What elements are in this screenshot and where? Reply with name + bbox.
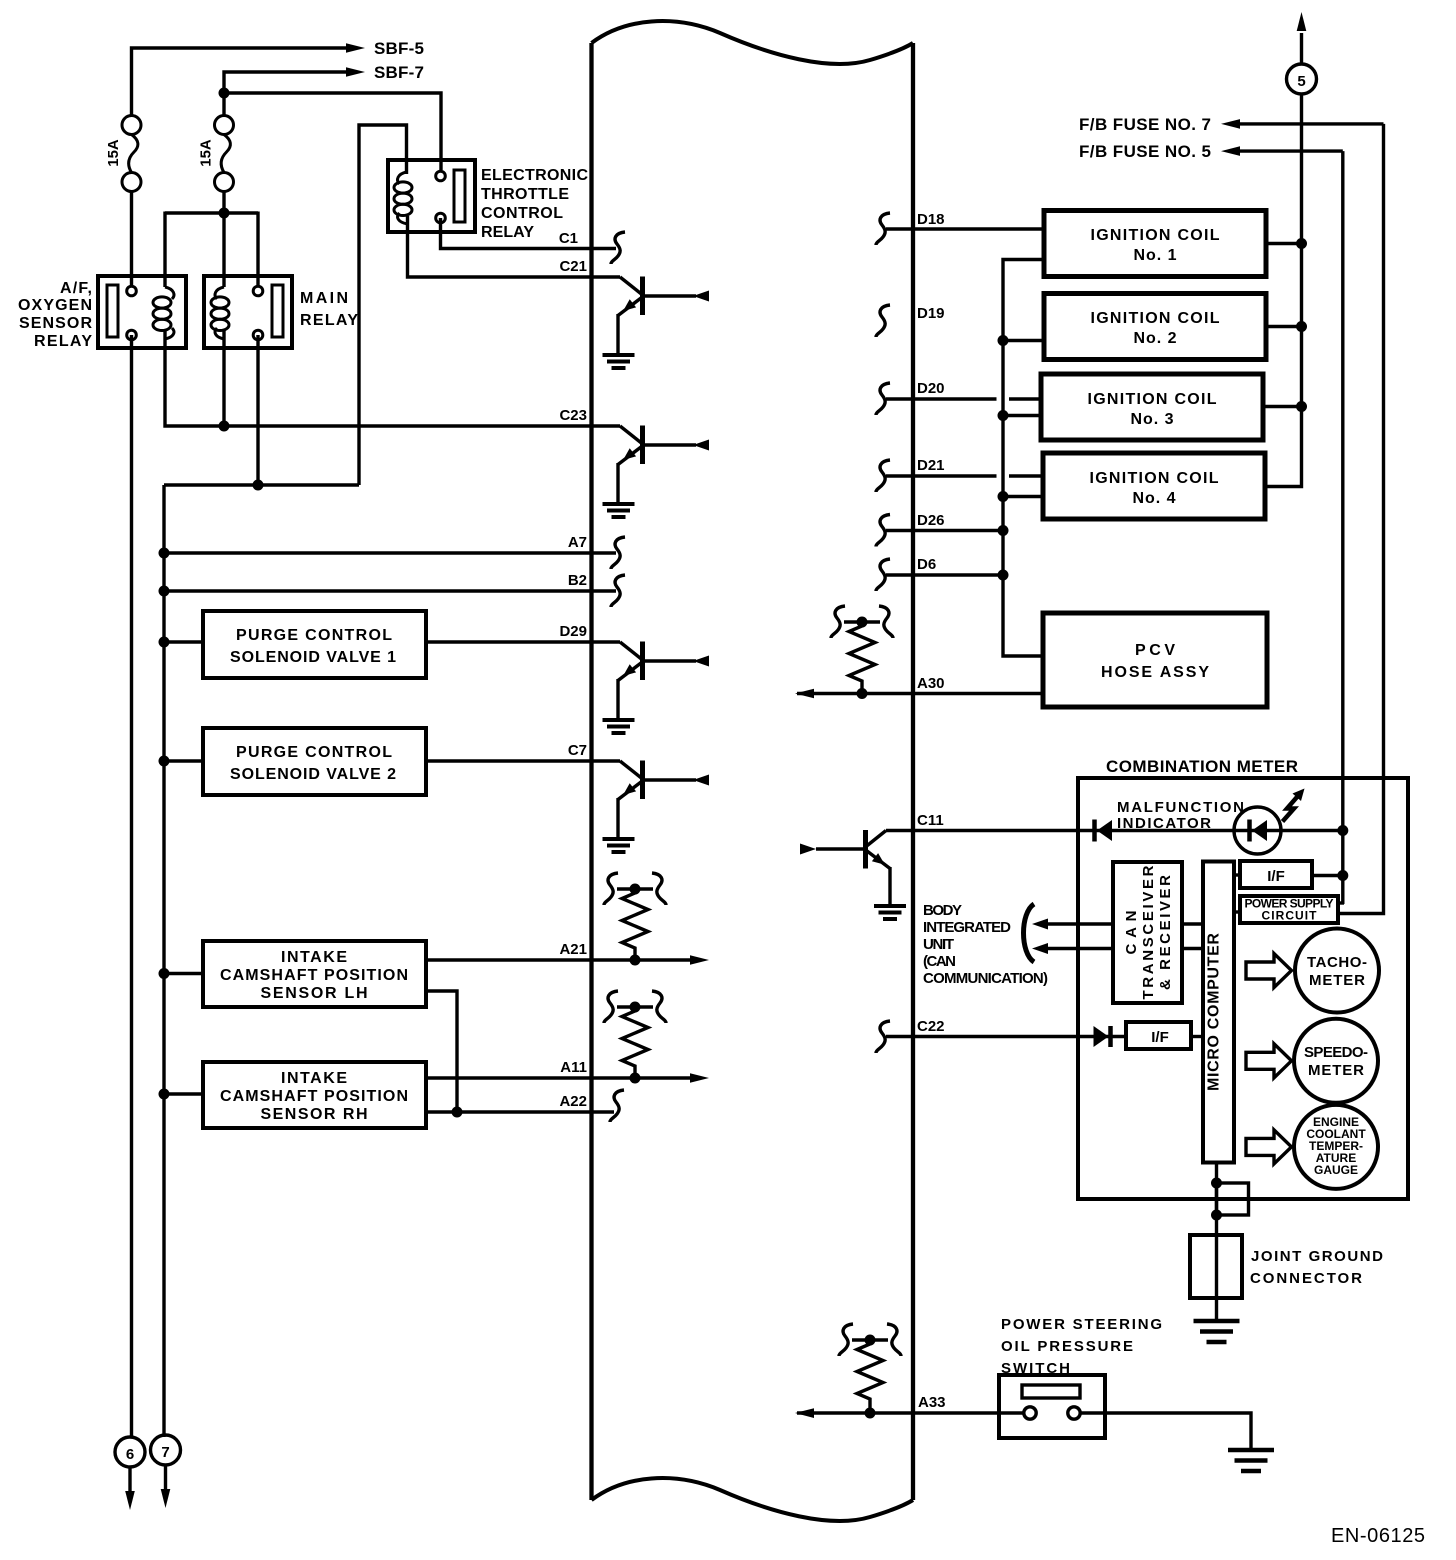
LED flash arrow <box>1283 789 1305 822</box>
svg-text:MALFUNCTION: MALFUNCTION <box>1117 799 1244 816</box>
node junction bus/coil3 <box>998 410 1009 421</box>
arrow CAN low <box>1032 943 1048 954</box>
node R3 bottom on A30 <box>857 688 868 699</box>
ground power steering switch <box>1228 1450 1274 1471</box>
wire SBF-7 horizontal <box>224 72 347 125</box>
gauge tachometer <box>1295 929 1379 1013</box>
svg-text:OIL PRESSURE: OIL PRESSURE <box>1001 1338 1133 1355</box>
node junction bus/coil2 <box>998 335 1009 346</box>
wire C1 stub inside ECM <box>592 247 617 250</box>
wire bus to cam sensor RH <box>164 1092 203 1095</box>
node junction bus/A7 <box>159 548 170 559</box>
node R4 top <box>865 1335 876 1346</box>
svg-text:JOINT GROUND: JOINT GROUND <box>1251 1248 1383 1265</box>
arrow circle 7 down <box>161 1489 171 1508</box>
svg-text:SENSOR: SENSOR <box>19 315 92 332</box>
wire cam LH second pin to A22 <box>426 991 457 1112</box>
svg-text:RELAY: RELAY <box>34 333 92 350</box>
resistor R1 pull-up A21 <box>617 889 653 960</box>
switch contact plate <box>1022 1385 1080 1398</box>
svg-text:No. 3: No. 3 <box>1131 411 1174 428</box>
node junction bus/B2 <box>159 586 170 597</box>
wire A30 <box>797 692 1043 695</box>
node junction supply/coil3 <box>1296 401 1307 412</box>
break B2 <box>611 575 625 607</box>
node junction I/F/F-B5 <box>1337 870 1348 881</box>
svg-text:BODY: BODY <box>923 902 962 919</box>
svg-text:CIRCUIT: CIRCUIT <box>1262 909 1318 923</box>
svg-text:SENSOR LH: SENSOR LH <box>261 985 368 1002</box>
wire coil1 pin2 to bus <box>1003 260 1044 657</box>
switch contact right <box>1068 1407 1080 1419</box>
node meter ground upper <box>1211 1178 1222 1189</box>
svg-text:C7: C7 <box>568 742 587 759</box>
wire below circle 7 <box>164 1465 167 1490</box>
break D6 <box>876 559 890 591</box>
node junction C11/F-B5 <box>1337 825 1348 836</box>
box micro computer <box>1203 862 1234 1163</box>
arrow CAN high <box>1032 919 1048 930</box>
ground Q2 <box>603 504 635 517</box>
node R2 bottom on A11 <box>630 1073 641 1084</box>
resistor R4 (A33) <box>852 1340 888 1413</box>
svg-text:SENSOR RH: SENSOR RH <box>261 1106 368 1123</box>
svg-text:I/F: I/F <box>1151 1029 1169 1046</box>
svg-text:GAUGE: GAUGE <box>1314 1163 1358 1177</box>
svg-text:B2: B2 <box>568 572 587 589</box>
box ignition coil No.2 <box>1044 294 1266 360</box>
break D21 <box>876 460 890 492</box>
wire main relay output pin down <box>256 335 259 485</box>
box intake camshaft position sensor RH <box>203 1062 426 1128</box>
node meter ground lower <box>1211 1210 1222 1221</box>
break A7 <box>611 537 625 569</box>
wire micro to I/F <box>1234 873 1240 876</box>
svg-text:MICRO COMPUTER: MICRO COMPUTER <box>1206 933 1223 1091</box>
svg-text:INTAKE: INTAKE <box>281 1070 347 1087</box>
wire bus to cam sensor LH <box>164 972 203 975</box>
wire coil3 pin2 to bus <box>1003 414 1041 417</box>
wire micro to power supply circuit <box>1234 910 1240 913</box>
connector circle 5 <box>1287 64 1317 94</box>
svg-text:UNIT: UNIT <box>923 936 954 953</box>
break D20 <box>876 383 890 415</box>
break R4 rail left <box>839 1324 853 1356</box>
ECM torn top edge <box>592 21 914 64</box>
box intake camshaft position sensor LH <box>203 941 426 1007</box>
wire C7 <box>426 759 592 762</box>
svg-text:INTEGRATED: INTEGRATED <box>923 919 1011 936</box>
box combination meter <box>1078 778 1408 1199</box>
svg-text:15A: 15A <box>198 139 215 167</box>
svg-text:No. 2: No. 2 <box>1134 330 1177 347</box>
wire bus to purge valve 1 <box>164 640 203 643</box>
wire fuse to main relay coil <box>222 192 225 288</box>
wire C11 <box>886 829 1343 832</box>
wire B2 <box>164 589 616 592</box>
node junction bus/cam LH <box>159 968 170 979</box>
svg-text:(CAN: (CAN <box>923 953 956 970</box>
svg-text:A33: A33 <box>918 1394 946 1411</box>
node junction bus/D6 <box>998 570 1009 581</box>
svg-text:SOLENOID VALVE 1: SOLENOID VALVE 1 <box>230 649 396 666</box>
ground Q5 <box>874 906 906 919</box>
svg-text:No. 4: No. 4 <box>1133 490 1176 507</box>
node junction bus/purge1 <box>159 637 170 648</box>
node junction bus/purge2 <box>159 756 170 767</box>
gauge speedometer <box>1294 1019 1378 1103</box>
wire D29 <box>426 640 592 643</box>
svg-text:METER: METER <box>1309 972 1365 989</box>
svg-text:F/B FUSE NO. 5: F/B FUSE NO. 5 <box>1079 142 1211 161</box>
diode D1 (MIL line) <box>1095 820 1113 842</box>
break R4 rail right <box>887 1324 901 1356</box>
transistor Q3 (D29 driver) <box>592 642 710 719</box>
wire ETC bottom pin to C1 <box>441 218 592 249</box>
svg-text:RELAY: RELAY <box>300 312 358 329</box>
svg-text:PURGE CONTROL: PURGE CONTROL <box>236 744 392 761</box>
svg-text:C1: C1 <box>559 230 578 247</box>
node junction A22/cam LH <box>452 1107 463 1118</box>
svg-text:HOSE ASSY: HOSE ASSY <box>1101 664 1209 681</box>
wire C21 into ECM <box>592 275 621 278</box>
node junction bus/cam RH <box>159 1089 170 1100</box>
wire supply vertical to coil4 <box>1265 33 1302 487</box>
ECM band left edge <box>589 43 593 1500</box>
resistor R2 pull-up A11 <box>617 1007 653 1078</box>
ground Q4 <box>603 839 635 852</box>
svg-text:SBF-7: SBF-7 <box>374 63 424 82</box>
body integrated unit parenthesis <box>1024 904 1035 962</box>
connector circle 7 <box>151 1435 181 1465</box>
ECM band right edge <box>911 43 915 1500</box>
node junction supply/coil2 <box>1296 321 1307 332</box>
svg-text:COMMUNICATION): COMMUNICATION) <box>923 970 1048 987</box>
svg-text:PCV: PCV <box>1135 642 1175 659</box>
wire A33 <box>797 1411 1024 1414</box>
box I/F lower <box>1126 1022 1191 1049</box>
node R4 bottom on A33 <box>865 1408 876 1419</box>
LED MIL lamp <box>1234 807 1281 854</box>
arrow F/B fuse no.5 <box>1221 146 1240 156</box>
node junction main coil / C23 <box>219 421 230 432</box>
svg-text:MAIN: MAIN <box>300 290 348 307</box>
wire main coil bottom to C23 line <box>222 329 225 426</box>
transistor Q1 (C21 driver) <box>618 277 709 354</box>
arrow F/B fuse no.7 <box>1221 119 1240 129</box>
svg-text:IGNITION COIL: IGNITION COIL <box>1091 310 1220 327</box>
wire D26 <box>886 529 1003 532</box>
wire junction to ETC relay top pin <box>224 93 441 170</box>
node junction rail/fuse <box>219 208 230 219</box>
svg-text:A11: A11 <box>560 1059 587 1076</box>
ground Q1 <box>603 355 635 368</box>
relay K3 electronic throttle control relay <box>388 160 475 232</box>
block arrow tachometer <box>1246 954 1292 988</box>
svg-text:D6: D6 <box>917 556 936 573</box>
connector box at meter bottom <box>1217 1183 1249 1215</box>
wire A/F coil top feed <box>163 212 166 288</box>
arrow circle 6 down <box>125 1491 135 1510</box>
break R3 rail right <box>879 606 893 638</box>
ground Q3 <box>603 720 635 733</box>
svg-text:CAMSHAFT POSITION: CAMSHAFT POSITION <box>220 1088 408 1105</box>
break R3 rail left <box>831 606 845 638</box>
svg-text:IGNITION COIL: IGNITION COIL <box>1091 227 1220 244</box>
wire C22 <box>886 1035 1126 1038</box>
wire coil4 pin2 to bus <box>1003 495 1043 498</box>
wire A21 <box>426 958 691 961</box>
wire F/B5 vertical <box>1341 151 1344 904</box>
break R2 rail left <box>604 991 618 1023</box>
svg-text:SBF-5: SBF-5 <box>374 39 424 58</box>
node R1 top <box>630 884 641 895</box>
wire main relay top pin feed <box>256 212 259 292</box>
gauge engine coolant temperature <box>1294 1105 1378 1189</box>
arrow A33 left <box>795 1408 814 1418</box>
wire CAN high to BIU <box>1048 922 1113 925</box>
svg-text:TACHO-: TACHO- <box>1307 954 1367 971</box>
node junction bus/D26 <box>998 525 1009 536</box>
node R2 top <box>630 1002 641 1013</box>
wire ETC coil bottom to C21 <box>408 216 592 277</box>
break C22 <box>876 1021 890 1053</box>
wire coil2 right to supply <box>1266 325 1302 328</box>
wire bus to purge valve 2 <box>164 759 203 762</box>
svg-text:F/B FUSE NO. 7: F/B FUSE NO. 7 <box>1079 115 1211 134</box>
node junction main pin / rail <box>253 480 264 491</box>
box ignition coil No.4 <box>1043 453 1265 519</box>
wire switch to ground <box>1079 1413 1251 1448</box>
svg-text:IGNITION COIL: IGNITION COIL <box>1090 470 1219 487</box>
svg-text:TRANSCEIVER: TRANSCEIVER <box>1140 865 1157 999</box>
svg-text:D26: D26 <box>917 512 945 529</box>
svg-text:6: 6 <box>126 1446 134 1463</box>
wire D20 (hops bus) <box>886 397 997 400</box>
svg-text:CONNECTOR: CONNECTOR <box>1250 1270 1362 1287</box>
resistor R3 (A30) <box>844 622 880 694</box>
svg-text:A30: A30 <box>917 675 945 692</box>
node R1 bottom on A21 <box>630 955 641 966</box>
wire below circle 6 <box>128 1467 131 1492</box>
wire SBF-5 horizontal <box>132 48 348 125</box>
svg-text:THROTTLE: THROTTLE <box>481 186 569 203</box>
fuse 15A right (main relay) <box>215 116 234 192</box>
wire A7 <box>164 551 616 554</box>
relay K2 main relay <box>204 276 292 348</box>
svg-text:RELAY: RELAY <box>481 224 534 241</box>
svg-text:EN-06125: EN-06125 <box>1331 1525 1425 1547</box>
wire coil rail y213 <box>165 211 258 214</box>
box PCV hose assy <box>1043 613 1267 707</box>
break R2 rail right <box>652 991 666 1023</box>
svg-text:A22: A22 <box>559 1093 587 1110</box>
svg-text:A21: A21 <box>559 941 587 958</box>
wire D18 <box>886 227 1044 230</box>
break C1 <box>611 232 625 264</box>
arrow A11 <box>690 1073 709 1083</box>
wire A/F coil bottom to C23 <box>165 329 592 426</box>
wire F/B fuse no.7 <box>1240 122 1384 125</box>
wire bus to coil2 <box>1003 339 1044 342</box>
block arrow speedometer <box>1246 1044 1292 1078</box>
wire coil3 right to supply <box>1263 405 1302 408</box>
arrow A30 left <box>795 689 814 699</box>
node junction supply/coil1 <box>1296 238 1307 249</box>
transistor Q2 (C23 driver) <box>592 426 710 503</box>
svg-text:C21: C21 <box>559 258 587 275</box>
arrow SBF-7 <box>346 67 365 77</box>
wire fuse to A/F relay pin <box>130 192 133 292</box>
box purge control solenoid valve 1 <box>203 611 426 678</box>
wire CAN box to micro (low) <box>1182 947 1203 950</box>
box CAN transceiver and receiver <box>1113 862 1182 1003</box>
svg-text:D20: D20 <box>917 380 945 397</box>
arrow SBF-5 <box>346 43 365 53</box>
svg-text:ELECTRONIC: ELECTRONIC <box>481 167 588 184</box>
box ignition coil No.1 <box>1044 211 1266 277</box>
node junction SBF-7/ETC feed <box>219 88 230 99</box>
fuse 15A left (A/F relay) <box>122 116 141 192</box>
wire left feed bus <box>162 485 165 1437</box>
wire A/F relay output down to circle 6 <box>130 335 133 1437</box>
svg-text:D19: D19 <box>917 305 945 322</box>
block arrow coolant gauge <box>1246 1130 1292 1164</box>
svg-text:C22: C22 <box>917 1018 945 1035</box>
arrow A21 <box>690 955 709 965</box>
node R3 top <box>857 617 868 628</box>
break R1 rail right <box>652 873 666 905</box>
svg-text:C23: C23 <box>559 407 587 424</box>
wire output rail y485 <box>164 483 359 486</box>
svg-text:SOLENOID VALVE 2: SOLENOID VALVE 2 <box>230 766 396 783</box>
box power steering oil pressure switch <box>999 1375 1105 1438</box>
svg-text:7: 7 <box>161 1444 169 1461</box>
wire I/F to F/B5 <box>1312 874 1343 877</box>
svg-text:5: 5 <box>1297 73 1305 90</box>
svg-text:IGNITION COIL: IGNITION COIL <box>1088 391 1217 408</box>
svg-text:SPEEDO-: SPEEDO- <box>1304 1044 1368 1061</box>
svg-text:COMBINATION METER: COMBINATION METER <box>1106 757 1298 776</box>
wire CAN box to micro (high) <box>1182 922 1203 925</box>
transistor Q4 (C7 driver) <box>592 761 710 838</box>
relay K1 A/F oxygen sensor relay <box>98 276 186 348</box>
svg-text:CAN: CAN <box>1123 911 1140 955</box>
wire F/B7 vertical <box>1338 124 1384 914</box>
wire coil1 right to supply <box>1266 242 1302 245</box>
wire micro computer to joint ground <box>1215 1163 1218 1235</box>
svg-text:CAMSHAFT POSITION: CAMSHAFT POSITION <box>220 967 408 984</box>
wire I/F lower to micro <box>1191 1035 1203 1038</box>
diode D2 (C22 line) <box>1094 1026 1111 1047</box>
transistor Q5 (C11 driver, mirrored) <box>800 830 890 904</box>
wire through joint ground connector <box>1215 1235 1218 1319</box>
svg-text:METER: METER <box>1308 1062 1364 1079</box>
break R1 rail left <box>604 873 618 905</box>
connector circle 6 <box>115 1437 145 1467</box>
svg-text:15A: 15A <box>105 139 122 167</box>
switch contact left <box>1024 1407 1036 1419</box>
arrow supply up <box>1297 12 1307 31</box>
svg-text:CONTROL: CONTROL <box>481 205 563 222</box>
svg-text:D18: D18 <box>917 211 945 228</box>
svg-text:I/F: I/F <box>1267 868 1285 885</box>
wire CAN low to BIU <box>1048 947 1113 950</box>
svg-text:A7: A7 <box>568 534 587 551</box>
box ignition coil No.3 <box>1041 374 1263 440</box>
wire D21 (hops bus) <box>886 474 997 477</box>
svg-text:D29: D29 <box>559 623 587 640</box>
box power supply circuit <box>1240 896 1338 923</box>
break D26 <box>876 515 890 547</box>
node junction bus/coil4 <box>998 491 1009 502</box>
box purge control solenoid valve 2 <box>203 728 426 795</box>
svg-text:A/F,: A/F, <box>60 280 92 297</box>
svg-text:No. 1: No. 1 <box>1134 247 1177 264</box>
break A22 <box>610 1090 624 1122</box>
wire A11 <box>426 1076 691 1079</box>
box joint ground connector <box>1190 1235 1242 1298</box>
wire A22 <box>426 1110 614 1113</box>
box I/F upper <box>1240 861 1312 888</box>
svg-text:OXYGEN: OXYGEN <box>18 297 92 314</box>
svg-text:PURGE CONTROL: PURGE CONTROL <box>236 627 392 644</box>
svg-text:D21: D21 <box>917 457 945 474</box>
ground joint ground connector <box>1194 1321 1240 1342</box>
svg-text:C11: C11 <box>917 812 944 829</box>
svg-text:INTAKE: INTAKE <box>281 949 347 966</box>
break D18 <box>876 213 890 245</box>
ECM torn bottom edge <box>592 1478 914 1521</box>
wire D6 <box>886 573 1003 576</box>
break D19 <box>876 305 890 337</box>
wire F/B fuse no.5 <box>1240 149 1343 152</box>
wire ETC coil feed from main relay output <box>359 125 407 485</box>
